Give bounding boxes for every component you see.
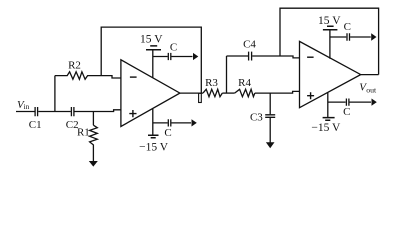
ground arrow below C3 xyxy=(266,142,275,148)
wire C2 to op-amp non-inverting input with R1 junction xyxy=(75,110,121,112)
wire C1 to node A xyxy=(38,111,71,113)
ground arrow right bypass top U2 xyxy=(371,33,376,40)
capacitor C2 xyxy=(71,107,74,116)
capacitor C bypass top U2 xyxy=(347,33,350,40)
wire +15V to op-amp U1 top xyxy=(152,50,154,78)
svg-text:C3: C3 xyxy=(250,112,263,124)
capacitor C bypass bottom U2 xyxy=(346,99,349,106)
power +15V rail bars op-amp U1 xyxy=(146,46,161,50)
wire R1 junction vertical xyxy=(92,112,94,126)
power -15V rail bars op-amp U1 xyxy=(148,135,159,138)
svg-text:R2: R2 xyxy=(68,60,81,72)
svg-text:C: C xyxy=(170,41,177,53)
op-amp U1 xyxy=(121,60,180,127)
svg-text:R4: R4 xyxy=(238,77,251,89)
resistor R1 xyxy=(90,125,98,161)
wire C3 junction vertical xyxy=(269,93,271,114)
op-amp U1 non-inverting pin mark xyxy=(129,110,136,117)
wire feedback loop 1 xyxy=(101,27,201,93)
svg-text:R1: R1 xyxy=(77,127,90,139)
wire -15V from op-amp U2 bottom xyxy=(327,93,329,118)
svg-text:in: in xyxy=(24,102,30,111)
svg-text:−15 V: −15 V xyxy=(311,122,341,134)
op-amp U2 xyxy=(300,41,361,107)
wire C3 to ground xyxy=(269,118,271,143)
wire R3 to R4 with C4 junction xyxy=(222,92,234,94)
ground arrow right bypass bottom U2 xyxy=(372,99,377,106)
op-amp U2 non-inverting pin mark xyxy=(307,92,314,99)
wire op-amp U1 output to R3 xyxy=(180,92,203,94)
resistor R4 xyxy=(235,89,255,96)
capacitor C bypass bottom U1 xyxy=(168,119,171,126)
wire op-amp U2 output to Vout node xyxy=(361,74,379,76)
node Vin input lead wire xyxy=(16,111,35,113)
svg-text:C: C xyxy=(164,127,171,139)
wire feedback loop 2 xyxy=(280,8,379,74)
svg-text:C: C xyxy=(344,21,351,33)
ground arrow right bypass top U1 xyxy=(193,53,198,60)
svg-text:R3: R3 xyxy=(205,77,218,89)
node stub below feedback junction xyxy=(199,93,202,102)
capacitor C3 xyxy=(265,115,275,118)
capacitor C4 xyxy=(249,52,252,61)
ground arrow right bypass bottom U1 xyxy=(192,119,197,126)
wire bypass top U1 xyxy=(153,56,193,58)
power -15V rail bars op-amp U2 xyxy=(323,118,335,121)
wire bypass top U2 xyxy=(330,36,371,38)
wire -15V from op-amp U1 bottom xyxy=(152,109,154,135)
op-amp U1 inverting pin mark xyxy=(130,76,137,78)
node A junction vertical wire to R2 xyxy=(54,76,56,112)
svg-text:C1: C1 xyxy=(29,119,42,131)
wire bypass bottom U1 xyxy=(153,122,191,124)
wire bypass bottom U2 xyxy=(328,101,371,103)
ground arrow below R1 xyxy=(89,161,98,167)
svg-text:C4: C4 xyxy=(243,38,256,50)
wire +15V to op-amp U2 top xyxy=(329,30,331,59)
svg-text:15 V: 15 V xyxy=(318,15,341,27)
wire C4 branch xyxy=(227,56,300,58)
svg-text:15 V: 15 V xyxy=(140,33,163,45)
op-amp U2 inverting pin mark xyxy=(307,56,314,58)
svg-text:out: out xyxy=(366,85,377,94)
svg-text:C: C xyxy=(343,106,350,118)
svg-text:−15 V: −15 V xyxy=(139,142,169,154)
capacitor C bypass top U1 xyxy=(168,53,171,60)
wire and resistor R2 feedback branch xyxy=(55,72,121,80)
capacitor C1 xyxy=(35,107,38,116)
resistor R3 xyxy=(203,89,222,96)
wire C4 junction vertical xyxy=(226,56,228,93)
wire R4 to op-amp U2 non-inverting input xyxy=(255,91,300,93)
power +15V rail bars op-amp U2 xyxy=(323,26,338,29)
